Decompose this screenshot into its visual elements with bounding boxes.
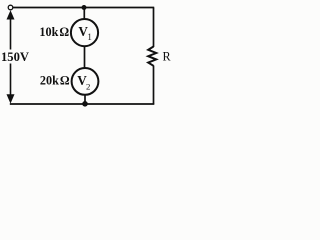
node junction bottom bbox=[82, 101, 88, 107]
voltmeter V1 bbox=[71, 19, 98, 46]
wire middle branch lower bbox=[84, 95, 86, 105]
svg-text:150V: 150V bbox=[1, 50, 29, 64]
svg-text:R: R bbox=[163, 49, 172, 63]
wire left vertical upper bbox=[10, 17, 12, 50]
voltmeter V2 bbox=[72, 68, 99, 95]
wire top horizontal bbox=[13, 7, 154, 9]
wire left vertical lower bbox=[10, 64, 12, 98]
wire bottom horizontal bbox=[10, 103, 154, 105]
node terminal top-left bbox=[8, 5, 13, 10]
wire middle branch upper bbox=[83, 8, 85, 20]
source arrow down (150V) bbox=[7, 94, 15, 103]
node junction top bbox=[82, 5, 87, 10]
svg-text:1: 1 bbox=[87, 32, 92, 42]
wire right vertical upper bbox=[153, 8, 155, 48]
svg-text:20k Ω: 20k Ω bbox=[40, 74, 70, 88]
wire middle branch mid bbox=[84, 46, 86, 69]
resistor R bbox=[148, 47, 171, 66]
svg-text:2: 2 bbox=[86, 81, 90, 91]
wire right vertical lower bbox=[153, 66, 155, 105]
svg-text:10k Ω: 10k Ω bbox=[39, 25, 69, 39]
source arrow up (150V) bbox=[7, 10, 15, 19]
